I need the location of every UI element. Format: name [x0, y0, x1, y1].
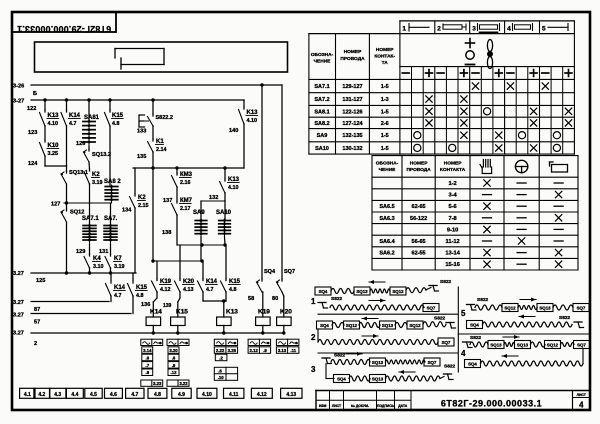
svg-text:SA6.2: SA6.2 [379, 251, 394, 257]
svg-text:57: 57 [34, 320, 40, 326]
contact K13 4.10 right [243, 100, 245, 107]
svg-text:126: 126 [76, 141, 85, 147]
bus 87 [31, 301, 109, 303]
bus 2 [31, 332, 284, 334]
svg-text:4.7: 4.7 [114, 293, 122, 299]
svg-text:134: 134 [122, 208, 132, 214]
svg-text:2-6: 2-6 [381, 121, 389, 127]
svg-text:.2: .2 [219, 355, 223, 360]
svg-text:2.15: 2.15 [138, 203, 149, 209]
svg-text:124: 124 [28, 161, 38, 167]
svg-text:1-5: 1-5 [381, 133, 389, 139]
svg-text:SQ7: SQ7 [427, 306, 436, 311]
svg-text:132: 132 [209, 195, 218, 201]
svg-text:2.16: 2.16 [180, 180, 191, 186]
svg-text:2: 2 [311, 333, 316, 342]
svg-text:58: 58 [248, 296, 254, 302]
svg-text:140: 140 [229, 128, 238, 134]
svg-text:3.27: 3.27 [13, 331, 24, 337]
svg-text:SA10: SA10 [216, 210, 232, 216]
svg-text:4: 4 [507, 26, 511, 33]
contact KМ3 2.16 [176, 168, 178, 173]
svg-text:SA7.1: SA7.1 [314, 84, 329, 90]
svg-text:НОМЕР: НОМЕР [410, 161, 428, 167]
svg-text:4.8: 4.8 [154, 392, 161, 398]
svg-text:136: 136 [141, 302, 150, 308]
svg-text:137: 137 [163, 198, 172, 204]
svg-text:4.13: 4.13 [183, 287, 194, 293]
svg-text:SA6.3: SA6.3 [379, 216, 394, 222]
svg-text:4.5: 4.5 [90, 392, 97, 398]
svg-text:15-16: 15-16 [445, 262, 460, 268]
svg-text:SQ7: SQ7 [428, 360, 437, 365]
svg-text:4.4: 4.4 [71, 392, 78, 398]
contact K15 4.8 low [225, 245, 227, 279]
svg-text:ИЗМ: ИЗМ [319, 404, 327, 408]
contact K14 4.7 low [202, 261, 204, 279]
svg-text:4.1: 4.1 [24, 392, 31, 398]
svg-text:ПОДПИСЬ: ПОДПИСЬ [377, 404, 395, 408]
svg-text:SQ4: SQ4 [320, 323, 329, 328]
svg-text:130-132: 130-132 [342, 146, 362, 152]
svg-text:SQ7: SQ7 [442, 340, 451, 345]
switch SA10 [224, 201, 226, 219]
svg-text:7-8: 7-8 [448, 216, 456, 222]
xref table K14 [141, 339, 163, 345]
svg-text:S822: S822 [470, 335, 482, 341]
svg-text:56-122: 56-122 [410, 216, 427, 222]
svg-text:.6: .6 [218, 369, 222, 374]
svg-text:3.27: 3.27 [13, 271, 24, 277]
title block [316, 390, 590, 392]
svg-text:ОБОЗНА-: ОБОЗНА- [311, 52, 334, 58]
svg-text:SA6.4: SA6.4 [379, 239, 395, 245]
svg-text:4.8: 4.8 [112, 121, 120, 127]
svg-text:1-5: 1-5 [381, 146, 389, 152]
machine outline rectangle [35, 42, 288, 72]
stamp box with inverted doc number [12, 12, 116, 32]
svg-text:.9: .9 [263, 348, 267, 353]
svg-text:SA8.1: SA8.1 [314, 109, 329, 115]
svg-text:S822: S822 [477, 297, 489, 303]
svg-text:SA7.2: SA7.2 [314, 97, 329, 103]
switch SA8.1 [88, 100, 90, 120]
svg-text:НОМЕР: НОМЕР [344, 49, 362, 55]
connector symbol inside outline [115, 48, 164, 50]
svg-text:132-135: 132-135 [342, 133, 362, 139]
svg-text:S822.2: S822.2 [156, 115, 173, 121]
svg-text:ЧЕНИЕ: ЧЕНИЕ [314, 59, 331, 65]
contact K20 4.13 [179, 245, 181, 279]
table icon [549, 162, 551, 166]
svg-text:SQ12: SQ12 [547, 343, 559, 348]
bus 3-27 [31, 99, 244, 101]
wire SQ7 drop [281, 85, 283, 279]
svg-text:3.10: 3.10 [93, 264, 104, 270]
svg-text:9-10: 9-10 [447, 227, 458, 233]
svg-text:3.13: 3.13 [278, 348, 287, 353]
svg-text:SQ4: SQ4 [264, 269, 276, 275]
svg-text:4.10: 4.10 [48, 121, 59, 127]
svg-text:ДАТА: ДАТА [398, 404, 408, 408]
svg-text:2.17: 2.17 [180, 206, 191, 212]
svg-text:127-124: 127-124 [342, 121, 363, 127]
svg-text:56-65: 56-65 [412, 239, 426, 245]
sheet cell [572, 391, 574, 411]
svg-text:135: 135 [137, 154, 146, 160]
svg-text:SQ13: SQ13 [490, 343, 502, 348]
contact K14 4.7 left-low [110, 273, 112, 280]
cable section dividers [318, 313, 458, 315]
mid bus 168 [133, 167, 244, 169]
svg-text:4.3: 4.3 [54, 392, 61, 398]
svg-text:SQ4: SQ4 [319, 289, 328, 294]
svg-text:127: 127 [51, 202, 60, 208]
svg-text:SQ13: SQ13 [356, 289, 368, 294]
contact K14 4.7 [66, 100, 68, 110]
svg-text:123: 123 [28, 130, 37, 136]
svg-text:4.7: 4.7 [206, 287, 214, 293]
svg-text:2.14: 2.14 [156, 147, 167, 153]
switch SQ13.1 [66, 166, 68, 171]
rail y245 [177, 244, 225, 246]
svg-text:SQ4: SQ4 [468, 362, 477, 367]
svg-text:SQ12: SQ12 [392, 289, 404, 294]
svg-text:ТА: ТА [382, 60, 389, 66]
rail y261 [153, 260, 202, 262]
svg-text:ПРОВОДА: ПРОВОДА [406, 167, 431, 173]
svg-text:4.8: 4.8 [136, 293, 144, 299]
svg-text:.11: .11 [290, 348, 296, 353]
svg-text:S822: S822 [559, 315, 571, 321]
svg-text:КОНТАК-: КОНТАК- [374, 54, 395, 60]
contact K13 4.10 [44, 100, 46, 110]
svg-text:.7: .7 [146, 363, 150, 368]
svg-text:K14: K14 [150, 309, 162, 316]
contact KМ7 2.17 [176, 187, 178, 201]
svg-text:.8: .8 [146, 370, 150, 375]
svg-text:4.10: 4.10 [202, 392, 212, 398]
svg-text:139: 139 [163, 303, 172, 309]
wire jog to SQ13.1 [44, 156, 46, 166]
propeller symbol [487, 40, 492, 52]
svg-text:2.22: 2.22 [216, 348, 225, 353]
table1 grid [400, 20, 575, 22]
svg-text:.6: .6 [172, 355, 176, 360]
contact K2 3.19 [88, 162, 91, 169]
svg-text:122: 122 [27, 106, 36, 112]
svg-text:S822: S822 [334, 353, 346, 359]
bus 3-26 [31, 84, 282, 86]
svg-text:3.27: 3.27 [13, 300, 24, 306]
svg-text:2: 2 [437, 26, 441, 33]
svg-text:SA81: SA81 [84, 115, 100, 121]
svg-text:SA9: SA9 [317, 133, 328, 139]
wheel icon [515, 160, 527, 172]
xref table K20 [276, 339, 299, 345]
svg-text:2.12: 2.12 [250, 348, 259, 353]
svg-text:125: 125 [36, 278, 45, 284]
svg-text:4.10: 4.10 [228, 185, 239, 191]
svg-text:SQ7: SQ7 [577, 343, 586, 348]
svg-text:ПРОВОДА: ПРОВОДА [340, 56, 365, 62]
svg-text:133: 133 [137, 129, 146, 135]
svg-text:4.7: 4.7 [69, 121, 77, 127]
svg-text:SQ12: SQ12 [409, 323, 421, 328]
svg-text:.12: .12 [171, 370, 178, 375]
contact K4 3.10 [89, 244, 91, 254]
svg-text:87: 87 [34, 307, 40, 313]
svg-text:3: 3 [472, 26, 476, 33]
xref table K19 [248, 339, 271, 345]
svg-text:1-5: 1-5 [381, 109, 389, 115]
svg-text:4.7: 4.7 [131, 392, 138, 398]
switch SA9 [200, 201, 202, 219]
svg-text:5: 5 [542, 26, 546, 33]
svg-text:129-127: 129-127 [342, 84, 362, 90]
svg-text:ЛИСТ: ЛИСТ [577, 393, 587, 397]
svg-text:3.25: 3.25 [228, 348, 237, 353]
svg-text:3.22: 3.22 [179, 381, 188, 386]
svg-text:SQ7: SQ7 [577, 306, 586, 311]
svg-text:SQ12: SQ12 [504, 306, 516, 311]
svg-text:4: 4 [579, 401, 584, 410]
svg-text:.9: .9 [172, 363, 176, 368]
svg-text:ОБОЗНА-: ОБОЗНА- [376, 161, 399, 167]
svg-text:2: 2 [34, 341, 37, 347]
table1 center symbols [466, 42, 475, 44]
svg-text:S822: S822 [331, 296, 343, 302]
switch SQ13.2 [88, 146, 90, 149]
svg-text:4: 4 [461, 349, 466, 358]
svg-text:S822: S822 [444, 364, 456, 370]
switch SQ12 [65, 201, 68, 204]
svg-text:SA8 2: SA8 2 [104, 179, 121, 185]
svg-text:3.25: 3.25 [48, 151, 59, 157]
svg-text:122-126: 122-126 [342, 109, 362, 115]
svg-text:K13: K13 [226, 309, 238, 316]
svg-text:62-55: 62-55 [412, 251, 426, 257]
xref table K15 [167, 339, 189, 345]
svg-text:13-14: 13-14 [445, 251, 460, 257]
svg-text:ЛИСТ: ЛИСТ [332, 404, 342, 408]
svg-text:5-6: 5-6 [448, 204, 456, 210]
contact K15 4.8 left-low [132, 273, 134, 280]
svg-text:SA10: SA10 [315, 146, 329, 152]
svg-text:K20: K20 [280, 309, 292, 316]
svg-text:SQ7: SQ7 [284, 269, 295, 275]
svg-text:1-2: 1-2 [448, 181, 456, 187]
svg-text:5: 5 [461, 309, 466, 318]
xref table K13 [214, 339, 237, 345]
wire SQ4 drop [261, 85, 263, 279]
svg-text:3.27: 3.27 [13, 313, 24, 319]
svg-text:.9: .9 [146, 355, 150, 360]
svg-text:.10: .10 [218, 375, 225, 380]
svg-text:4.9: 4.9 [178, 392, 185, 398]
svg-text:Б: Б [33, 91, 37, 97]
svg-text:КОНТАКТА: КОНТАКТА [440, 167, 466, 173]
svg-text:SA6.5: SA6.5 [379, 204, 394, 210]
svg-text:3-27: 3-27 [13, 99, 24, 105]
svg-text:4.10: 4.10 [247, 118, 258, 124]
svg-text:SQ13: SQ13 [372, 360, 384, 365]
svg-text:3.19: 3.19 [114, 264, 125, 270]
hand icon [482, 160, 484, 168]
svg-text:4.13: 4.13 [286, 392, 296, 398]
svg-text:1: 1 [402, 26, 406, 33]
svg-text:S822: S822 [434, 316, 446, 322]
svg-text:НОМЕР: НОМЕР [444, 161, 462, 167]
svg-text:3.20: 3.20 [169, 348, 178, 353]
svg-text:SQ13: SQ13 [539, 306, 551, 311]
svg-text:6Т82Г-29.000.00033.1: 6Т82Г-29.000.00033.1 [441, 399, 542, 409]
contact K2 2.15 [134, 168, 136, 194]
svg-text:1-3: 1-3 [381, 97, 389, 103]
svg-text:НОМЕР: НОМЕР [376, 47, 394, 53]
svg-text:3.14: 3.14 [143, 348, 152, 353]
svg-text:SA9: SA9 [193, 210, 205, 216]
contact K7 3.19 [110, 244, 112, 254]
svg-text:131-127: 131-127 [342, 97, 362, 103]
svg-text:6Т82Г-29.000.00033.1: 6Т82Г-29.000.00033.1 [17, 24, 111, 34]
svg-text:4.6: 4.6 [110, 392, 117, 398]
bus 57 [31, 313, 131, 315]
svg-text:SQ4: SQ4 [337, 377, 346, 382]
svg-text:80: 80 [272, 296, 278, 302]
table2 grid [372, 155, 578, 157]
svg-text:11-12: 11-12 [445, 239, 459, 245]
svg-text:№ ДОКУМ.: № ДОКУМ. [351, 404, 369, 408]
svg-text:S822: S822 [440, 279, 452, 285]
svg-text:1-5: 1-5 [381, 84, 389, 90]
sheet strip [20, 388, 35, 398]
table1 sign row [402, 72, 409, 74]
svg-text:ЧЕНИЕ: ЧЕНИЕ [379, 167, 396, 173]
contact K10 3.25 [44, 126, 46, 140]
svg-text:3.19: 3.19 [92, 180, 103, 186]
svg-text:SQ12: SQ12 [70, 210, 84, 216]
svg-text:3-26: 3-26 [13, 84, 24, 90]
pushbutton S822.2 [152, 100, 154, 114]
svg-text:3-4: 3-4 [448, 193, 457, 199]
svg-text:4.12: 4.12 [257, 392, 267, 398]
svg-text:4.12: 4.12 [160, 287, 171, 293]
svg-text:4.11: 4.11 [229, 392, 239, 398]
svg-text:SA7.1: SA7.1 [82, 216, 99, 222]
svg-text:K19: K19 [258, 309, 270, 316]
svg-text:1: 1 [311, 297, 316, 306]
svg-text:3.23: 3.23 [153, 381, 162, 386]
svg-text:SQ13: SQ13 [382, 323, 394, 328]
contact K1 2.14 [152, 126, 154, 139]
svg-text:SQ13.2: SQ13.2 [92, 152, 111, 158]
svg-text:SA8.2: SA8.2 [314, 121, 329, 127]
svg-text:131: 131 [99, 249, 108, 255]
svg-text:3: 3 [311, 365, 316, 374]
svg-text:129: 129 [76, 249, 85, 255]
wire x153 drop [152, 168, 154, 261]
bus 125 [31, 272, 136, 274]
svg-text:SQ4: SQ4 [470, 323, 479, 328]
svg-text:62-65: 62-65 [412, 204, 426, 210]
svg-text:SQ13: SQ13 [372, 377, 384, 382]
contact K15 4.8 [109, 100, 111, 110]
contact K19 4.12 [156, 261, 158, 279]
svg-text:138: 138 [162, 230, 171, 236]
svg-text:SQ12: SQ12 [346, 323, 358, 328]
contact K13 4.10 mid [224, 168, 226, 179]
svg-text:4.8: 4.8 [229, 287, 237, 293]
svg-text:SQ13: SQ13 [517, 343, 529, 348]
svg-text:4.2: 4.2 [38, 392, 45, 398]
